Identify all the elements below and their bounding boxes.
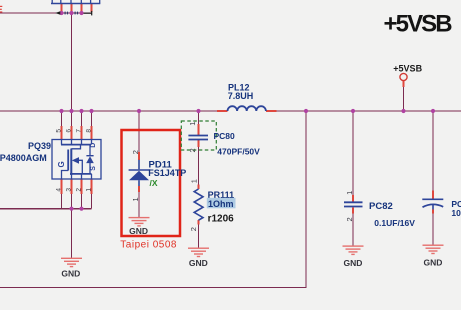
svg-text:1: 1 <box>131 197 140 201</box>
svg-text:D: D <box>90 143 97 148</box>
svg-text:S: S <box>90 166 97 171</box>
svg-text:1: 1 <box>345 191 354 195</box>
svg-text:7.8UH: 7.8UH <box>228 91 254 101</box>
svg-text:/X: /X <box>150 178 158 188</box>
svg-text:0.1UF/16V: 0.1UF/16V <box>374 218 415 228</box>
svg-text:1: 1 <box>188 122 197 126</box>
svg-text:1: 1 <box>190 179 199 183</box>
svg-text:GND: GND <box>129 226 148 236</box>
svg-text:3: 3 <box>65 188 72 192</box>
svg-text:r1206: r1206 <box>208 213 235 224</box>
svg-text:2: 2 <box>345 217 354 221</box>
svg-text:PQ39: PQ39 <box>28 141 51 151</box>
svg-text:FS1J4TP: FS1J4TP <box>148 168 186 178</box>
svg-text:10UF/16V: 10UF/16V <box>451 208 461 218</box>
svg-text:GND: GND <box>424 258 443 268</box>
svg-text:AP4800AGM: AP4800AGM <box>0 153 47 163</box>
svg-text:GND: GND <box>344 258 363 268</box>
svg-text:1: 1 <box>85 188 92 192</box>
svg-text:6: 6 <box>65 129 72 133</box>
svg-text:470PF/50V: 470PF/50V <box>217 147 260 157</box>
svg-text:2: 2 <box>131 150 140 154</box>
svg-text:PC80: PC80 <box>214 131 236 141</box>
svg-text:G: G <box>57 161 66 167</box>
svg-text:GND: GND <box>61 268 80 278</box>
svg-text:+5VSB: +5VSB <box>384 11 453 38</box>
svg-text:GND: GND <box>189 258 208 268</box>
svg-text:7: 7 <box>75 129 82 133</box>
svg-text:4: 4 <box>55 188 62 192</box>
svg-text:8: 8 <box>85 129 92 133</box>
svg-text:1Ohm: 1Ohm <box>208 199 234 209</box>
svg-text:Taipei 0508: Taipei 0508 <box>120 239 177 250</box>
svg-text:PC82: PC82 <box>369 201 393 212</box>
svg-text:2: 2 <box>189 227 198 231</box>
svg-text:5: 5 <box>55 129 62 133</box>
svg-text:+5VSB: +5VSB <box>393 63 422 73</box>
svg-text:2: 2 <box>188 148 197 152</box>
svg-text:2: 2 <box>75 188 82 192</box>
